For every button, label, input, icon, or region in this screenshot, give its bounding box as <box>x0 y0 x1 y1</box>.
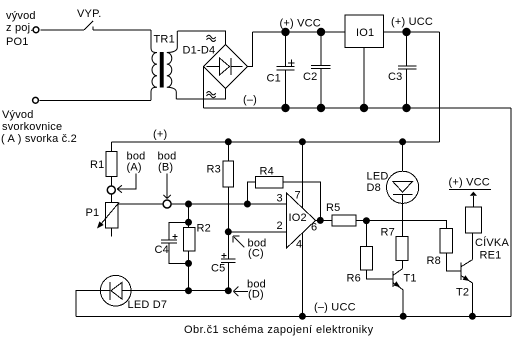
resistor R3 <box>207 142 234 232</box>
IO1 regulator <box>345 15 384 48</box>
node dot R6 top <box>363 217 370 224</box>
svg-text:3: 3 <box>277 193 283 205</box>
transistor T2 <box>456 260 472 317</box>
svg-text:PO1: PO1 <box>6 36 29 48</box>
node UCC dot <box>402 28 410 36</box>
svg-text:svorkovnice: svorkovnice <box>2 121 62 133</box>
resistor R6 <box>347 221 393 285</box>
svg-text:(–) UCC: (–) UCC <box>314 302 356 314</box>
transformer TR1 core <box>160 52 164 88</box>
svg-text:TR1: TR1 <box>154 34 175 46</box>
op-amp IO2 <box>277 190 318 251</box>
svg-text:R3: R3 <box>207 164 221 176</box>
svg-text:( A ) svorka č.2: ( A ) svorka č.2 <box>1 133 77 145</box>
minus rail <box>204 107 512 109</box>
svg-text:C4: C4 <box>155 244 169 256</box>
VCC top rail <box>253 31 345 33</box>
node VCC dot C2 <box>317 28 325 36</box>
wire UCC down to lower rail <box>439 32 441 142</box>
svg-text:(+) VCC: (+) VCC <box>449 177 490 189</box>
node dot R4 branch <box>244 201 251 208</box>
LED D7 <box>100 275 167 311</box>
svg-text:(–): (–) <box>243 94 257 106</box>
wire pin 7 to plus rail <box>301 142 303 208</box>
svg-text:6: 6 <box>311 222 317 234</box>
wire bridge minus down <box>203 67 205 109</box>
resistor R2 <box>183 223 211 291</box>
svg-text:(+) VCC: (+) VCC <box>280 18 321 30</box>
svg-text:z poj.: z poj. <box>6 22 34 34</box>
svg-text:(C): (C) <box>248 248 264 260</box>
svg-text:7: 7 <box>295 190 301 202</box>
node dot R2 branch <box>185 201 192 208</box>
svg-text:(B): (B) <box>158 162 173 174</box>
bridge rectifier D1-D4 <box>183 35 248 97</box>
svg-text:R8: R8 <box>427 255 441 267</box>
transformer TR1 secondary coil <box>167 31 178 99</box>
node dot R2 bottom <box>185 260 192 267</box>
transistor T1 <box>393 269 417 317</box>
svg-text:LED: LED <box>367 171 389 183</box>
coil RE1 <box>465 207 509 262</box>
lower plus rail <box>111 141 439 143</box>
transformer TR1 primary coil <box>151 30 157 100</box>
arrow RE1 to VCC <box>449 177 492 207</box>
resistor R1 <box>90 142 117 186</box>
svg-text:R7: R7 <box>381 227 395 239</box>
wire IO1 to UCC <box>384 31 440 33</box>
svg-text:(A): (A) <box>127 162 142 174</box>
svg-text:R5: R5 <box>326 202 340 214</box>
wire IO1 ground pin <box>363 48 365 109</box>
svg-text:C3: C3 <box>388 71 402 83</box>
svg-text:2: 2 <box>277 220 283 232</box>
wire minus rail right down <box>510 108 512 316</box>
svg-text:IO2: IO2 <box>289 212 307 224</box>
switch VYP. <box>77 8 101 30</box>
svg-text:C5: C5 <box>211 263 225 275</box>
wire secondary bottom to bridge <box>176 89 225 100</box>
node dot T2 emitter <box>469 313 476 320</box>
wire pin 2 <box>228 231 286 233</box>
svg-text:(D): (D) <box>248 289 264 301</box>
node A arrow and label bod (A) <box>117 151 145 193</box>
node D line <box>131 290 228 292</box>
node dot pin4 bottom <box>299 313 306 320</box>
wire node B to op-amp pin 3 <box>171 203 286 205</box>
svg-text:T1: T1 <box>404 273 417 285</box>
terminal svorkovnice A <box>1 97 77 145</box>
node C dot <box>225 228 232 235</box>
svg-text:(+): (+) <box>153 129 167 141</box>
resistor R8 <box>427 229 461 272</box>
node dot R2 top <box>185 219 192 226</box>
svg-text:CÍVKA: CÍVKA <box>475 236 509 249</box>
resistor R5 <box>326 202 356 226</box>
node dot R2 on D line <box>185 287 192 294</box>
svg-text:C1: C1 <box>267 73 281 85</box>
resistor R7 <box>381 227 408 269</box>
svg-text:VYP.: VYP. <box>77 8 101 20</box>
terminal PO1 top <box>6 10 39 48</box>
wire bridge plus up to VCC rail <box>248 32 253 67</box>
resistor R4 <box>247 166 320 221</box>
svg-text:4: 4 <box>296 239 302 251</box>
wire pin 4 to bottom rail <box>301 233 303 316</box>
capacitor C1 <box>267 32 295 108</box>
svg-text:R6: R6 <box>347 273 361 285</box>
node C arrow and label bod (C) <box>233 236 266 260</box>
svg-text:T2: T2 <box>456 287 469 299</box>
op-amp output wire <box>316 219 333 221</box>
capacitor C3 <box>388 32 416 108</box>
node dot R3 top <box>225 138 232 145</box>
node D dot <box>225 287 232 294</box>
svg-text:D1-D4: D1-D4 <box>183 45 216 57</box>
LED D8 <box>367 142 419 237</box>
node dot T1 emitter <box>400 313 407 320</box>
svg-text:vývod: vývod <box>6 10 36 22</box>
capacitor C5 <box>211 232 236 291</box>
node B open circle on wiper line <box>118 203 163 205</box>
svg-text:R4: R4 <box>260 166 274 178</box>
svg-text:LED D7: LED D7 <box>128 299 168 311</box>
node VCC dot C1 <box>281 28 289 36</box>
svg-text:RE1: RE1 <box>480 250 502 262</box>
svg-text:C2: C2 <box>303 71 317 83</box>
node dot C1 gnd <box>281 104 289 112</box>
capacitor C2 <box>303 32 331 108</box>
svg-text:R2: R2 <box>197 223 211 235</box>
svg-text:(+) UCC: (+) UCC <box>391 16 433 28</box>
wire switch to transformer <box>93 29 151 31</box>
node dot IO1 gnd <box>360 104 368 112</box>
svg-text:IO1: IO1 <box>356 27 374 39</box>
node dot LED D8 top <box>399 138 406 145</box>
svg-text:D8: D8 <box>367 182 381 194</box>
potentiometer P1 <box>86 194 120 236</box>
svg-text:Vývod: Vývod <box>2 109 34 121</box>
node dot output pin 6 <box>317 217 324 224</box>
svg-text:R1: R1 <box>90 159 104 171</box>
node B arrow and label bod (B) <box>158 151 177 199</box>
svg-text:Obr.č1 schéma zapojení elektro: Obr.č1 schéma zapojení elektroniky <box>184 324 374 336</box>
wire LED D7 to bottom rail <box>76 291 101 317</box>
wire secondary top to bridge <box>177 31 225 45</box>
bottom rail <box>76 315 511 317</box>
wire primary bottom to terminal A <box>40 99 151 101</box>
capacitor C4 <box>155 222 189 263</box>
node D arrow and label bod (D) <box>233 279 266 301</box>
node A open circle <box>107 186 115 194</box>
wire terminal to switch <box>41 29 85 31</box>
node dot pin7 top <box>299 138 306 145</box>
wire node line to R2 <box>188 204 190 228</box>
node dot C2 gnd <box>317 104 325 112</box>
wire R5 to R8 <box>356 221 446 229</box>
svg-text:P1: P1 <box>86 207 100 219</box>
node dot C3 gnd <box>402 104 410 112</box>
